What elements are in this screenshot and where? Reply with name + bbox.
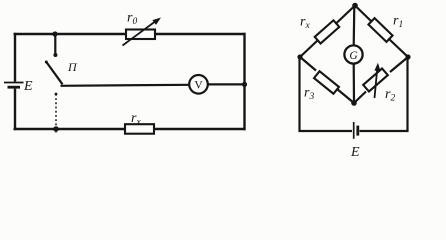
label r2	[385, 87, 395, 104]
voltmeter V	[189, 75, 208, 94]
svg-text:П: П	[67, 60, 78, 74]
wire: bridge arm top-left (with gaps for resistor)	[300, 6, 355, 58]
wire: galvanometer branch lower	[353, 63, 355, 103]
label r0	[127, 11, 137, 28]
wire: dashed vertical wire from bottom node	[55, 93, 58, 133]
wire: top wire left segment	[14, 33, 127, 35]
label rx (bridge)	[300, 15, 310, 32]
wire: bridge bottom wire left segment	[299, 130, 353, 132]
resistor rx (left circuit body)	[125, 124, 154, 134]
svg-text:E: E	[350, 145, 360, 159]
svg-text:E: E	[23, 79, 33, 94]
label E (left circuit)	[23, 79, 33, 94]
wire: top wire right segment	[155, 33, 246, 35]
wire: bridge left vertical	[298, 57, 300, 132]
rheostat arrow of r2	[374, 63, 380, 98]
switch contact dot	[53, 53, 57, 57]
resistor r0 (rheostat body)	[126, 30, 155, 40]
label E (bridge)	[350, 145, 360, 160]
battery E (left circuit): short thick plate	[8, 86, 21, 89]
label rx (left circuit)	[131, 111, 141, 128]
wire: switch stub from top wire	[54, 34, 56, 55]
wire: left vertical wire above battery	[14, 33, 16, 82]
battery E (bridge): short thick plate	[356, 126, 359, 136]
wire: bottom wire left segment	[14, 128, 126, 130]
wire: bridge arm bottom-right (with gaps for resistor)	[354, 57, 408, 103]
wire: bridge arm bottom-left (with gaps for resistor)	[300, 57, 354, 103]
battery E (left circuit): long plate	[4, 82, 24, 84]
node: bridge left	[297, 54, 302, 59]
resistor r2 (variable)	[363, 68, 388, 91]
wire: right vertical wire of left circuit	[243, 33, 245, 130]
resistor rx (bridge)	[315, 20, 340, 43]
svg-text:V: V	[194, 80, 203, 92]
node: bridge right	[405, 54, 410, 59]
wire: galvanometer branch upper	[353, 6, 356, 47]
node: junction middle wire / right edge	[242, 82, 247, 87]
wire: bridge arm top-right (with gaps for resistor)	[355, 6, 408, 58]
node: junction on bottom wire	[53, 126, 59, 132]
node: bridge bottom	[351, 100, 357, 106]
node: bridge top	[352, 3, 358, 9]
battery E (bridge): long plate	[353, 122, 355, 139]
wire: bridge bottom wire right segment	[360, 130, 409, 132]
wire: left vertical wire below battery	[14, 89, 16, 131]
svg-text:G: G	[349, 50, 358, 62]
wire: middle wire from voltmeter to right edge	[208, 83, 246, 85]
resistor r3	[314, 71, 339, 94]
resistor r1	[368, 18, 392, 42]
label П	[67, 60, 78, 74]
label r3	[304, 86, 314, 103]
rheostat arrow of r0	[123, 18, 162, 46]
switch П blade	[45, 61, 63, 85]
node: junction on top wire	[52, 31, 57, 36]
wire: bottom wire right segment	[154, 128, 246, 130]
wire: bridge right vertical	[406, 57, 408, 132]
label r1	[393, 14, 403, 31]
wire: middle wire to voltmeter	[61, 85, 190, 86]
galvanometer G	[344, 45, 362, 63]
